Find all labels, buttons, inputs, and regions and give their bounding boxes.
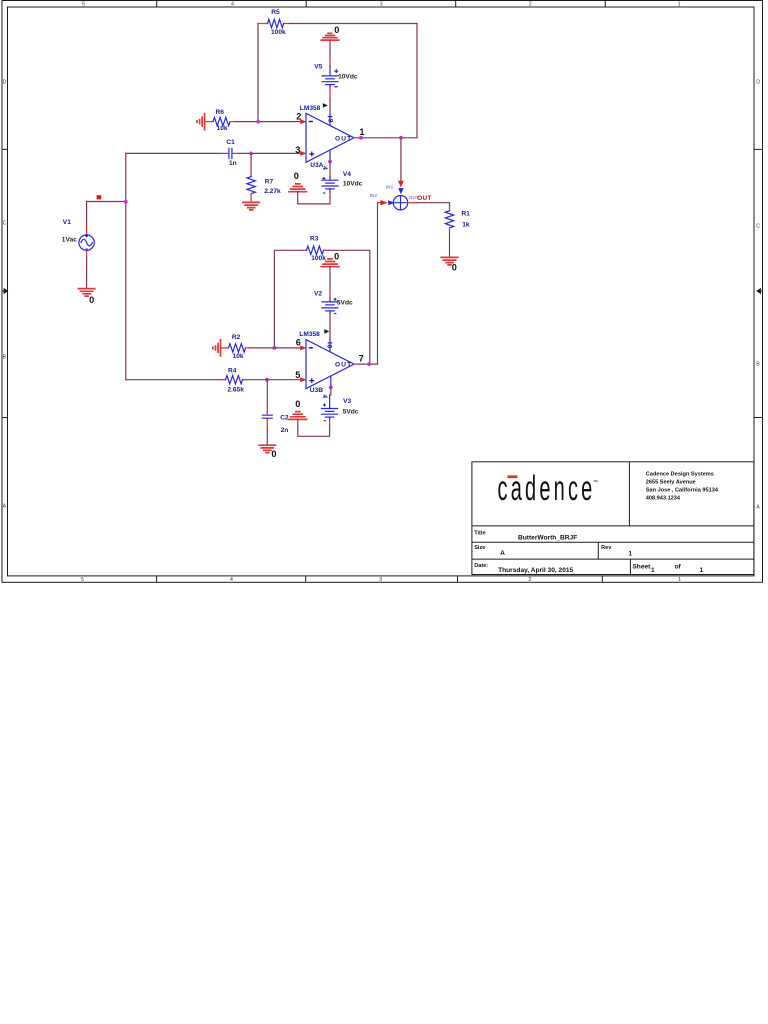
svg-text:0: 0 [334, 252, 339, 262]
svg-text:6: 6 [296, 337, 301, 347]
op-amp U3A [295, 103, 364, 170]
svg-text:™: ™ [593, 480, 598, 486]
wire U3A V- to V4 [329, 162, 331, 173]
company address [646, 472, 719, 502]
ground below R1 [441, 257, 457, 272]
svg-text:R1: R1 [461, 211, 470, 218]
svg-text:LM358: LM358 [300, 105, 321, 112]
V- stub pin4 [330, 376, 332, 387]
size/rev vertical divider [597, 542, 599, 559]
minus mark [309, 347, 313, 349]
ground 0 (V5 plus, flipped mound) [321, 25, 339, 40]
resistor R6 [213, 109, 235, 132]
pin3 arrow [300, 151, 306, 156]
svg-text:5: 5 [81, 577, 84, 583]
summer IN2 red arrow [380, 200, 388, 205]
black power marker [324, 329, 329, 334]
wire R7 tap [250, 153, 252, 172]
capacitor C2 [262, 407, 289, 434]
svg-text:100k: 100k [311, 255, 326, 262]
ground 0 near V3 (flipped mound) [289, 399, 307, 420]
wire R5 left vertical to inverting node [257, 24, 259, 122]
junction dot R2 node [273, 346, 277, 350]
wire V3 minus loop to ground [329, 421, 331, 427]
svg-text:B: B [3, 355, 7, 361]
wire IN1 drop from output net [400, 138, 402, 181]
TITLEBLOCK [472, 462, 754, 575]
op-amp U3B [295, 329, 363, 398]
svg-text:Title: Title [474, 530, 485, 536]
resistor R7 [247, 172, 281, 202]
svg-text:0: 0 [452, 263, 457, 273]
wire V2 to U3B V+ [329, 315, 331, 320]
svg-text:ButterWorth_BRJF: ButterWorth_BRJF [518, 535, 577, 542]
output stub [354, 363, 359, 365]
junction dot C2 node [265, 378, 269, 382]
svg-text:U3B: U3B [310, 387, 323, 394]
wire V5 to U3A V+ [329, 89, 331, 99]
wire C2 tap [266, 380, 268, 407]
svg-text:10Vdc: 10Vdc [338, 74, 358, 81]
wire inverting input net (R6 to pin2) [235, 121, 302, 123]
battery V2 5Vdc [314, 290, 353, 315]
svg-text:R5: R5 [271, 9, 280, 16]
wire R3 left riser [274, 250, 302, 348]
resistor R1 [445, 207, 470, 233]
svg-text:C: C [756, 224, 760, 230]
svg-text:A: A [500, 550, 505, 557]
svg-text:10Vdc: 10Vdc [343, 180, 363, 187]
svg-text:D: D [3, 80, 7, 86]
svg-text:3: 3 [379, 577, 382, 583]
wire R5 right to feedback corner [289, 24, 418, 138]
black power marker [323, 103, 328, 108]
resistor R4 [221, 367, 247, 393]
output stub [354, 137, 359, 139]
svg-text:4: 4 [230, 577, 233, 583]
summer IN2 blue arrow [388, 200, 394, 205]
ground below C2 [259, 445, 276, 459]
svg-text:3: 3 [295, 145, 300, 155]
wire U3A output to feedback corner [359, 137, 417, 139]
left center arrow [2, 290, 5, 292]
junction dot pin3 node [249, 152, 253, 156]
svg-text:R7: R7 [265, 178, 274, 185]
logo/address vertical divider [628, 462, 630, 526]
svg-text:IN1: IN1 [386, 184, 394, 190]
top zone ticks [157, 1, 606, 8]
svg-text:8: 8 [326, 119, 333, 123]
svg-text:1: 1 [678, 1, 681, 7]
junction dot U3B V- [329, 385, 333, 389]
svg-text:0: 0 [334, 25, 339, 35]
svg-text:2: 2 [529, 1, 532, 7]
svg-text:C: C [3, 221, 7, 227]
svg-text:5Vdc: 5Vdc [337, 300, 353, 307]
battery V3 5Vdc [322, 395, 359, 421]
wire IN2 riser from U3B output [378, 203, 381, 364]
wire V4 minus loop to ground [329, 193, 331, 198]
svg-text:1Vac: 1Vac [62, 237, 77, 244]
V+ stub pin8 [328, 340, 331, 352]
svg-text:2.65k: 2.65k [227, 386, 244, 393]
svg-text:R6: R6 [216, 109, 225, 116]
svg-text:Thursday, April 30, 2015: Thursday, April 30, 2015 [498, 567, 573, 574]
svg-text:2n: 2n [281, 427, 289, 434]
wire C1 left to long riser [126, 152, 222, 154]
svg-text:5: 5 [295, 370, 300, 380]
svg-text:R2: R2 [232, 334, 241, 341]
capacitor C1 [222, 139, 238, 167]
svg-text:Size: Size [474, 545, 485, 551]
svg-text:100k: 100k [271, 29, 286, 36]
junction dot U3B output [367, 362, 371, 366]
wire ground to V2 [329, 267, 331, 291]
junction dot V1 tap [124, 200, 128, 204]
svg-text:0: 0 [89, 295, 94, 305]
svg-text:A: A [756, 505, 760, 511]
svg-text:Sheet: Sheet [632, 563, 651, 570]
svg-text:R4: R4 [228, 367, 237, 374]
svg-text:5Vdc: 5Vdc [343, 409, 359, 416]
junction dot U3A output [359, 136, 363, 140]
minus mark [309, 121, 313, 123]
svg-text:B: B [756, 362, 760, 368]
wire U3B output to IN2 riser [359, 363, 378, 365]
svg-text:D: D [756, 80, 760, 86]
svg-text:1: 1 [651, 567, 655, 574]
svg-text:C1: C1 [226, 139, 235, 146]
resistor R3 [302, 235, 329, 262]
svg-text:1k: 1k [462, 221, 470, 228]
svg-text:V3: V3 [343, 398, 351, 405]
svg-text:of: of [675, 564, 682, 571]
ground left of R6 (rotated) [197, 114, 213, 130]
svg-text:10k: 10k [217, 125, 228, 132]
summer block [393, 195, 418, 210]
svg-text:7: 7 [359, 353, 364, 363]
resistor R5 [258, 23, 289, 25]
svg-text:2655 Seely Avenue: 2655 Seely Avenue [646, 480, 696, 486]
title block horizontal dividers [472, 526, 754, 559]
SCHEMATIC [62, 9, 470, 459]
svg-text:1: 1 [359, 127, 364, 137]
summer IN1 red arrow [398, 181, 404, 188]
svg-text:V1: V1 [63, 219, 71, 226]
svg-text:1: 1 [700, 567, 704, 574]
right center arrow [760, 290, 763, 292]
pin5 arrow [300, 377, 306, 382]
svg-text:5: 5 [82, 1, 85, 7]
cadence logo [498, 469, 599, 508]
svg-text:10k: 10k [233, 353, 244, 360]
junction dot pin2 node [256, 120, 260, 124]
svg-text:2: 2 [529, 577, 532, 583]
wire R2 to pin6 [250, 347, 301, 349]
resistor R2 [229, 334, 251, 360]
battery V5 10Vdc [314, 63, 358, 89]
V+ stub pin8 [328, 113, 331, 125]
svg-text:cadence: cadence [498, 469, 596, 508]
ground left of R2 (rotated) [213, 340, 229, 356]
wire C2 to ground [266, 428, 268, 445]
svg-text:0: 0 [294, 171, 299, 181]
svg-text:4: 4 [321, 166, 328, 170]
wire R4 to pin5 [126, 379, 301, 381]
ground below R7 [243, 202, 259, 210]
wire summer to R1 [408, 202, 418, 204]
wire ground to V5 [329, 40, 331, 58]
svg-text:408.943.1234: 408.943.1234 [646, 496, 681, 502]
svg-text:Rev: Rev [601, 545, 612, 551]
inner border frame [8, 7, 755, 576]
title block outline [472, 462, 754, 575]
ground 0 near V4 (flipped mound) [289, 171, 307, 192]
junction dot IN1 tee [399, 136, 403, 140]
ground below V1 [78, 289, 94, 305]
svg-text:LM358: LM358 [299, 331, 320, 338]
svg-text:V2: V2 [314, 290, 322, 297]
junction dot U3A V- [328, 160, 332, 164]
svg-text:OUT: OUT [417, 195, 431, 202]
svg-text:2: 2 [296, 112, 301, 122]
svg-text:1: 1 [628, 551, 632, 558]
wire R3 right to U3B output [329, 250, 370, 364]
right zone ticks [754, 149, 763, 417]
net label IN [97, 195, 102, 199]
battery V4 10Vdc [322, 171, 363, 193]
svg-text:V5: V5 [314, 63, 322, 70]
date/sheet vertical divider [629, 559, 631, 574]
svg-text:8: 8 [326, 345, 333, 349]
svg-text:San Jose , California 95134: San Jose , California 95134 [646, 488, 719, 494]
wire V1 top tap [87, 201, 126, 203]
left zone ticks [2, 149, 8, 417]
svg-text:V4: V4 [343, 171, 351, 178]
svg-text:1n: 1n [229, 160, 237, 167]
svg-text:2.27k: 2.27k [264, 188, 281, 195]
svg-text:0: 0 [271, 449, 276, 459]
svg-text:Cadence Design Systems: Cadence Design Systems [646, 472, 714, 478]
V- stub pin4 [329, 150, 331, 160]
svg-text:C2: C2 [280, 415, 289, 422]
wire long input riser [125, 153, 127, 379]
wire noninverting net (C1 to pin3) [238, 152, 301, 154]
svg-text:Date:: Date: [474, 563, 488, 569]
outer sheet border [2, 1, 763, 583]
svg-text:A: A [3, 504, 7, 510]
wire U3B V- to V3 [330, 387, 332, 395]
ground 0 above V2 (flipped mound) [321, 252, 339, 267]
summer IN1 blue arrow [398, 188, 403, 194]
svg-text:4: 4 [321, 395, 328, 399]
svg-text:1: 1 [678, 577, 681, 583]
svg-text:OUT: OUT [335, 135, 352, 142]
bottom zone ticks [157, 576, 603, 582]
svg-text:OUT: OUT [335, 362, 352, 369]
svg-text:4: 4 [231, 1, 234, 7]
plus mark [309, 378, 314, 383]
plus mark [309, 152, 314, 157]
source V1 1Vac [62, 202, 95, 289]
svg-text:IN2: IN2 [370, 193, 378, 199]
svg-text:R3: R3 [310, 235, 319, 242]
pin2 arrow [300, 119, 306, 124]
svg-text:3: 3 [380, 1, 383, 7]
wire R1 to ground [449, 232, 451, 257]
pin6 arrow [300, 345, 306, 350]
svg-text:0: 0 [295, 399, 300, 409]
